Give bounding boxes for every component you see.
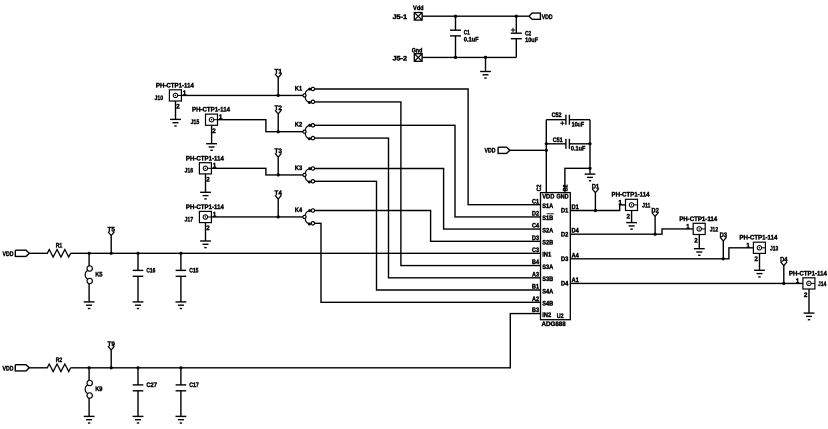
svg-text:2: 2 [754, 256, 758, 263]
svg-text:C52: C52 [552, 112, 562, 119]
svg-text:IN1: IN1 [542, 252, 552, 259]
svg-text:C2: C2 [536, 184, 543, 191]
test point D3 [720, 232, 728, 259]
svg-text:C1: C1 [532, 198, 539, 205]
svg-text:J11: J11 [642, 203, 651, 210]
resistor R2 [29, 357, 70, 372]
relay switch K3 (SPDT) [295, 165, 315, 184]
wire J16 pin1 to K3 common [212, 168, 303, 175]
capacitor C17 [176, 368, 200, 417]
connector J15 PH-CTP1-114 [191, 107, 231, 135]
svg-text:PH-CTP1-114: PH-CTP1-114 [739, 235, 777, 242]
svg-text:GND: GND [556, 194, 569, 201]
svg-text:J16: J16 [185, 168, 194, 175]
capacitor C1 0.1uF [450, 16, 479, 57]
relay switch K1 (SPDT) [295, 85, 315, 104]
svg-text:S2B: S2B [542, 240, 553, 247]
svg-text:VDD: VDD [542, 14, 553, 21]
junction T9 [110, 366, 113, 369]
ground (J15 pin 2) [206, 126, 217, 151]
junction T3 [277, 173, 280, 176]
junction C1/bottom [454, 56, 457, 59]
test point D4 [780, 257, 788, 284]
svg-text:S4A: S4A [542, 288, 553, 295]
svg-text:K2: K2 [295, 122, 303, 129]
svg-text:C27: C27 [146, 382, 157, 389]
power flag VDD (rail 2) [3, 365, 30, 373]
svg-text:S1B: S1B [542, 215, 553, 222]
svg-text:2: 2 [627, 213, 631, 220]
junction C2/top [515, 15, 518, 18]
svg-text:1: 1 [796, 278, 800, 285]
IC U2 ADG888 body [541, 193, 571, 328]
svg-text:C16: C16 [146, 268, 155, 275]
svg-text:D2: D2 [532, 211, 539, 218]
capacitor C51 0.1uF [546, 137, 590, 152]
wire K4 throw B to S4B [314, 223, 540, 302]
pin S1B overline [547, 213, 554, 215]
svg-text:K5: K5 [95, 271, 103, 278]
connector J5-1 (Vdd input) [393, 5, 424, 21]
junction D3 [722, 257, 725, 260]
svg-text:C4: C4 [532, 223, 539, 230]
capacitor C15 [176, 253, 199, 302]
ground (J12 pin 2) [694, 235, 705, 255]
svg-text:C51: C51 [553, 137, 563, 144]
svg-text:PH-CTP1-114: PH-CTP1-114 [156, 83, 194, 90]
svg-text:C15: C15 [189, 268, 199, 275]
svg-text:D3: D3 [532, 235, 539, 242]
relay switch K2 (SPDT) [295, 122, 315, 141]
svg-text:R1: R1 [56, 242, 63, 249]
svg-text:0.1uF: 0.1uF [464, 36, 479, 43]
junction C51 right [588, 142, 591, 145]
ground (J10 pin 2) [170, 101, 181, 126]
wire GND pin [565, 168, 590, 192]
svg-text:VDD: VDD [542, 194, 555, 201]
wire K2 throw A to S1B [314, 125, 540, 217]
IC U2 right pin names [556, 194, 569, 288]
svg-text:PH-CTP1-114: PH-CTP1-114 [789, 270, 827, 277]
junction VDD feed [545, 149, 548, 152]
junction C15 [179, 252, 182, 255]
svg-text:PH-CTP1-114: PH-CTP1-114 [186, 155, 224, 162]
connector J11 PH-CTP1-114 [612, 192, 651, 221]
junction GND pin [588, 167, 591, 170]
svg-text:J10: J10 [155, 95, 164, 102]
svg-text:B3: B3 [532, 307, 539, 314]
junction T5 [110, 252, 113, 255]
connector J16 PH-CTP1-114 [185, 155, 225, 183]
svg-text:10uF: 10uF [572, 121, 585, 128]
svg-text:ADG888: ADG888 [542, 321, 567, 328]
svg-text:T3: T3 [275, 148, 283, 155]
ground (K5) [84, 302, 95, 309]
svg-text:PH-CTP1-114: PH-CTP1-114 [186, 204, 224, 211]
svg-text:J15: J15 [191, 119, 200, 126]
svg-text:IN2: IN2 [542, 312, 552, 319]
svg-text:J17: J17 [185, 216, 194, 223]
svg-text:J13: J13 [770, 245, 779, 252]
ground (J14 pin 2) [804, 289, 815, 319]
svg-text:D3: D3 [561, 256, 569, 263]
power flag VDD (decoupling) [485, 147, 510, 154]
junction C51 left [545, 142, 548, 145]
wire J17 pin1 to K4 common [212, 216, 303, 218]
test point D2 [651, 207, 659, 234]
ground (top section) [480, 57, 491, 78]
svg-text:J5-2: J5-2 [393, 55, 408, 62]
ground (C27) [133, 416, 144, 423]
wire D3 to J13 [571, 248, 754, 259]
svg-text:T1: T1 [275, 69, 283, 76]
ground (J17 pin 2) [200, 223, 211, 248]
ground (K9) [84, 416, 95, 423]
svg-text:U2: U2 [557, 313, 564, 320]
svg-text:J14: J14 [818, 281, 827, 288]
IC U2 left pin numbers [532, 198, 539, 314]
junction C1/top [454, 15, 457, 18]
junction D2 [654, 233, 657, 236]
wire D2 to J12 [571, 229, 694, 234]
svg-text:B1: B1 [532, 284, 539, 291]
svg-text:B2: B2 [563, 184, 570, 191]
svg-text:A2: A2 [532, 296, 539, 303]
wire D4 to J14 [571, 282, 803, 284]
test point T3 [275, 148, 283, 175]
svg-text:VDD: VDD [3, 251, 14, 258]
svg-text:T9: T9 [108, 341, 116, 348]
ground (J13 pin 2) [754, 254, 765, 277]
junction C16 [136, 252, 139, 255]
power flag VDD (rail 1) [3, 250, 30, 258]
svg-text:C17: C17 [189, 382, 199, 389]
capacitor C52 10uF (polarized) [546, 112, 590, 128]
ground (J16 pin 2) [200, 174, 211, 199]
svg-text:K9: K9 [95, 386, 103, 393]
junction K9 [88, 366, 91, 369]
wire K2 throw B to S3B [314, 138, 540, 278]
wire rail1 to IN1 [71, 252, 541, 254]
junction T1 [277, 94, 280, 97]
svg-text:D2: D2 [651, 207, 659, 214]
svg-text:PH-CTP1-114: PH-CTP1-114 [612, 192, 650, 199]
svg-text:D4: D4 [780, 257, 788, 264]
svg-text:0.1uF: 0.1uF [571, 145, 586, 152]
ground (C17) [176, 416, 187, 423]
ground (J11 pin 2) [626, 211, 637, 229]
svg-text:K4: K4 [295, 207, 303, 214]
svg-text:D4: D4 [561, 281, 569, 288]
test point D1 [592, 184, 600, 211]
junction D4 [782, 282, 785, 285]
svg-text:1: 1 [746, 243, 750, 250]
ground (C15) [176, 302, 187, 309]
svg-text:2: 2 [694, 237, 698, 244]
jumper K9 [85, 368, 103, 417]
svg-text:T4: T4 [275, 190, 283, 197]
svg-text:B4: B4 [532, 259, 539, 266]
svg-text:T2: T2 [275, 105, 283, 112]
svg-text:VDD: VDD [485, 147, 496, 154]
junction C27 [136, 366, 139, 369]
svg-text:2: 2 [212, 128, 216, 135]
capacitor C27 [133, 368, 158, 417]
capacitor C16 [133, 253, 156, 302]
junction K5 [88, 252, 91, 255]
junction C17 [179, 366, 182, 369]
IC U2 right pin numbers [572, 204, 580, 284]
wire Vdd rail to VDD flag [422, 15, 529, 17]
ground (decoupling) [585, 174, 596, 181]
svg-text:J5-1: J5-1 [393, 14, 408, 21]
svg-text:D2: D2 [561, 231, 569, 238]
test point T4 [275, 190, 283, 217]
svg-text:VDD: VDD [3, 365, 14, 372]
svg-text:PH-CTP1-114: PH-CTP1-114 [679, 216, 717, 223]
svg-text:Gnd: Gnd [412, 47, 423, 54]
svg-text:K1: K1 [295, 85, 303, 92]
wire K4 throw A to S2B [314, 211, 540, 242]
connector J12 PH-CTP1-114 [679, 216, 718, 244]
svg-text:Vdd: Vdd [413, 5, 424, 12]
svg-text:1: 1 [686, 224, 690, 231]
svg-text:S4B: S4B [542, 301, 553, 308]
wire K3 throw B to S4A [314, 181, 540, 290]
junction gnd stub [484, 56, 487, 59]
svg-text:S3B: S3B [542, 276, 553, 283]
svg-text:R2: R2 [56, 357, 63, 364]
svg-text:2: 2 [176, 104, 180, 111]
capacitor C2 10uF (polarized) [511, 16, 538, 57]
svg-text:1: 1 [618, 200, 622, 207]
connector J14 PH-CTP1-114 [789, 270, 827, 298]
connector J13 PH-CTP1-114 [739, 235, 778, 264]
wire decoupling ground vertical [589, 120, 591, 174]
svg-text:J12: J12 [710, 227, 719, 234]
power flag VDD (top right) [529, 13, 553, 21]
wire D1 to J11 [571, 205, 626, 211]
wire VDD pin vertical [545, 120, 547, 193]
test point T1 [275, 69, 283, 96]
wire J15 pin1 to K2 common [218, 120, 303, 132]
svg-text:K3: K3 [295, 165, 303, 172]
svg-text:T5: T5 [108, 226, 116, 233]
wire J10 pin1 to K1 common [182, 94, 304, 96]
svg-text:2: 2 [804, 292, 808, 299]
svg-text:C3: C3 [532, 247, 539, 254]
junction T2 [277, 130, 280, 133]
junction T4 [277, 215, 280, 218]
svg-text:S3A: S3A [542, 264, 553, 271]
connector J10 PH-CTP1-114 [155, 83, 195, 111]
svg-text:S1A: S1A [542, 203, 553, 210]
svg-text:S2A: S2A [542, 227, 553, 234]
svg-text:D1: D1 [561, 208, 569, 215]
connector J17 PH-CTP1-114 [185, 204, 225, 232]
wire rail2 to IN2 [71, 314, 541, 368]
test point T2 [275, 105, 283, 132]
relay switch K4 (SPDT) [295, 207, 315, 226]
jumper K5 [85, 253, 103, 302]
wire K1 throw A to S1A [314, 89, 540, 205]
svg-text:D3: D3 [720, 232, 728, 239]
svg-text:2: 2 [206, 177, 210, 184]
junction D1 [594, 209, 597, 212]
wire K1 throw B to S3A [314, 102, 540, 266]
IC U2 left pin names [542, 194, 555, 319]
svg-text:2: 2 [206, 225, 210, 232]
ground (C16) [133, 302, 144, 309]
svg-text:D1: D1 [592, 184, 600, 191]
resistor R1 [29, 242, 70, 257]
svg-text:PH-CTP1-114: PH-CTP1-114 [192, 107, 230, 114]
wire VDD flag to pin [510, 149, 546, 151]
wire Gnd rail [422, 56, 516, 58]
wire K3 throw A to S2A [314, 169, 540, 230]
connector J5-2 (Gnd input) [393, 47, 423, 62]
test point T5 [108, 226, 116, 253]
svg-text:10uF: 10uF [525, 37, 538, 44]
test point T9 [108, 341, 116, 368]
svg-text:A3: A3 [532, 271, 539, 278]
